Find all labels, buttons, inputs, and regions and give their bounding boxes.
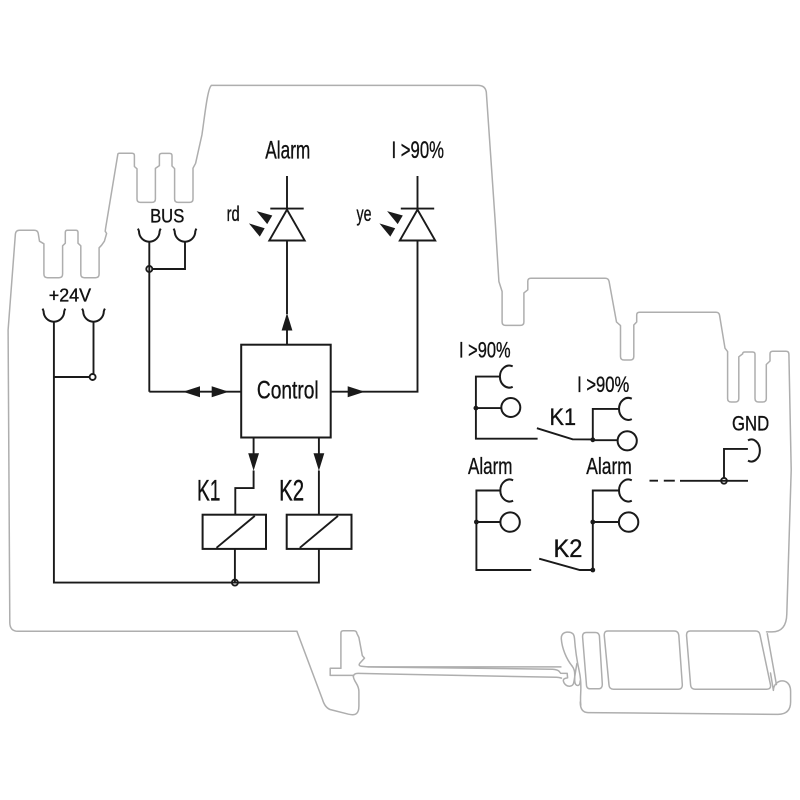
svg-text:I >90%: I >90% xyxy=(577,372,629,397)
svg-text:Control: Control xyxy=(257,377,319,405)
svg-text:rd: rd xyxy=(227,203,240,226)
svg-text:Alarm: Alarm xyxy=(265,136,310,164)
svg-text:I >90%: I >90% xyxy=(392,137,445,164)
svg-text:BUS: BUS xyxy=(150,207,184,228)
svg-text:K2: K2 xyxy=(554,535,583,563)
svg-text:K1: K1 xyxy=(550,404,577,431)
svg-text:Alarm: Alarm xyxy=(586,453,632,479)
svg-text:Alarm: Alarm xyxy=(468,453,513,479)
svg-text:GND: GND xyxy=(732,412,769,436)
svg-text:+24V: +24V xyxy=(49,285,91,305)
svg-text:I >90%: I >90% xyxy=(459,338,511,363)
svg-text:K2: K2 xyxy=(279,475,304,508)
svg-text:ye: ye xyxy=(357,203,372,226)
svg-text:K1: K1 xyxy=(197,475,221,508)
